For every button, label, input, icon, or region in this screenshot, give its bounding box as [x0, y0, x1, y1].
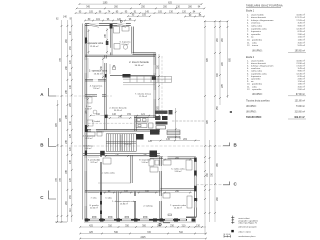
exterior wall right mid block: [153, 54, 155, 119]
svg-text:131.80 m²: 131.80 m²: [295, 99, 306, 102]
room label 4 kupaonica: [83, 136, 96, 141]
svg-text:499.20 m²: 499.20 m²: [294, 115, 305, 119]
corridor axis dashed: [88, 122, 134, 124]
exterior wall top: [85, 23, 131, 25]
pier stairs bottom-left: [100, 151, 105, 155]
room label 5 radna soba: [171, 168, 185, 174]
dim line x159: [158, 54, 160, 118]
svg-text:6.35 m²: 6.35 m²: [298, 30, 306, 33]
svg-text:12.65 m²: 12.65 m²: [90, 45, 99, 48]
section line B-B dashed: [56, 145, 223, 147]
window top wall 1: [89, 23, 99, 27]
svg-text:21.90 m²: 21.90 m²: [296, 62, 305, 65]
legend sveukupno: [246, 115, 305, 119]
svg-text:10.80 m²: 10.80 m²: [296, 13, 305, 16]
wall pier x123 terrace: [123, 74, 131, 78]
section line A-A dashed: [56, 95, 112, 97]
svg-text:1.80 m²: 1.80 m²: [298, 39, 306, 42]
svg-text:D: D: [120, 18, 123, 23]
svg-text:1.50 m²: 1.50 m²: [298, 80, 306, 83]
bathroom fixtures top-right room: [114, 27, 130, 50]
bottom rooms furniture marks: [103, 158, 192, 208]
wall pier stairs right: [136, 134, 144, 140]
dim line y140.5: [150, 140, 200, 142]
wall lower vertical x135: [133, 191, 135, 219]
wall lower vertical x160.5: [159, 157, 161, 220]
svg-text:radna soba: radna soba: [251, 25, 263, 28]
svg-text:6.30 m²: 6.30 m²: [86, 137, 93, 140]
corridor dim line: [90, 115, 150, 117]
svg-text:195.65 m²: 195.65 m²: [295, 50, 306, 53]
left chain ticks: [57, 25, 73, 217]
room label stepenice: [139, 159, 152, 165]
svg-text:UKUPNO:: UKUPNO:: [246, 111, 257, 113]
section marker B left: [40, 138, 56, 148]
wall mid vertical x131.5: [130, 155, 132, 183]
svg-text:UKUPNO:: UKUPNO:: [246, 106, 257, 108]
wall top-block mid vertical: [110, 25, 112, 56]
pier right wall top: [194, 198, 197, 201]
room label 6 kuhinja: [83, 146, 93, 151]
room label 1 dnevna: [112, 201, 136, 206]
staircase treads: [106, 134, 136, 152]
svg-text:7.90 m²: 7.90 m²: [93, 87, 100, 90]
right chain numbers: [207, 37, 231, 201]
interior dim ticks: [87, 29, 191, 193]
svg-text:SVEUKUPNO:: SVEUKUPNO:: [246, 116, 262, 119]
svg-text:UKUPNO:: UKUPNO:: [252, 94, 263, 96]
interior dim line room1: [88, 28, 192, 193]
legend block 1 rows: [247, 13, 305, 47]
svg-text:10.80 m²: 10.80 m²: [296, 59, 305, 62]
svg-text:12.: 12.: [247, 89, 250, 91]
wall lower vertical x117.5: [116, 191, 118, 219]
svg-text:soba: soba: [252, 42, 258, 44]
svg-text:4. radna soba: 4. radna soba: [101, 172, 115, 175]
pier left wall y129: [85, 129, 88, 132]
svg-text:dnevni boravak: dnevni boravak: [251, 16, 267, 19]
bottom-left end cluster: [55, 221, 67, 223]
room label 2b: [109, 107, 127, 113]
svg-text:1.80 m²: 1.80 m²: [298, 83, 306, 86]
bottom legend filled square: [231, 230, 234, 232]
wc cluster mid right: [149, 159, 159, 172]
scale mark cluster: [224, 235, 231, 238]
dashed overhang right: [161, 56, 163, 116]
svg-text:13.30 m²: 13.30 m²: [94, 73, 103, 76]
legend block 2 rows: [247, 59, 305, 91]
wall interior y116.5 partial: [134, 115, 156, 117]
svg-text:6.35 m²: 6.35 m²: [298, 75, 306, 78]
room label predsoblje: [88, 159, 101, 165]
svg-text:36.35 m²: 36.35 m²: [135, 64, 144, 67]
svg-text:15.20 m²: 15.20 m²: [139, 95, 147, 98]
piers on right wall x195.3: [194, 158, 197, 162]
wall pier x149 y151: [150, 151, 158, 158]
svg-text:12.35 m²: 12.35 m²: [296, 72, 305, 75]
right chain ticks: [204, 20, 228, 213]
wall lower band y190.5: [85, 190, 161, 192]
dim line y183: [98, 182, 131, 184]
bottom chain ticks: [79, 226, 206, 239]
svg-text:spremište: spremište: [251, 78, 261, 81]
wall step top right: [133, 52, 156, 54]
svg-text:20.50 m²: 20.50 m²: [90, 207, 98, 210]
svg-text:terasa: terasa: [252, 44, 259, 47]
wc fixtures: [87, 97, 97, 126]
svg-text:36.35 m²: 36.35 m²: [114, 109, 122, 112]
svg-text:11.: 11.: [247, 42, 250, 44]
svg-text:zidovi tipa Rigips 75: zidovi tipa Rigips 75: [238, 222, 257, 225]
svg-text:1195: 1195: [103, 2, 109, 4]
bottom legend text block 1: [237, 218, 258, 229]
svg-text:17.05 m²: 17.05 m²: [296, 65, 305, 68]
svg-text:4.60 m²: 4.60 m²: [85, 108, 92, 111]
svg-text:12.35 m²: 12.35 m²: [296, 27, 305, 30]
terrace band ledge: [123, 76, 172, 85]
svg-text:meduetazna ploca: meduetazna ploca: [238, 235, 256, 238]
svg-text:zajednička soba: zajednička soba: [251, 28, 267, 30]
pier top mid wall: [110, 24, 113, 29]
wall pier top-left room: [85, 38, 87, 44]
section marker A left: [40, 88, 56, 97]
svg-text:3.45 m²: 3.45 m²: [298, 67, 306, 70]
svg-text:5.40 m²: 5.40 m²: [142, 161, 149, 164]
legend header: [246, 3, 283, 8]
entry porch dark cluster: [150, 110, 173, 135]
bottom dimension chains: [80, 227, 206, 239]
top chain ticks: [75, 3, 205, 21]
section marker C right: [223, 182, 238, 187]
svg-text:2. kuhinja: 2. kuhinja: [143, 206, 153, 208]
svg-text:9.80 m²: 9.80 m²: [175, 170, 182, 173]
svg-text:9.80 m²: 9.80 m²: [298, 25, 306, 28]
svg-text:121.70 m²: 121.70 m²: [295, 16, 305, 19]
door gaps (white): [91, 48, 168, 201]
svg-text:kupaonica: kupaonica: [251, 31, 262, 33]
pier x105 y116 junction: [104, 115, 107, 118]
room label 1 spavaca soba: [85, 42, 104, 48]
svg-text:M 1:100: M 1:100: [224, 234, 231, 236]
svg-text:2.60 m²: 2.60 m²: [298, 88, 306, 91]
bathroom 4 fixtures: [87, 132, 102, 136]
wall bottom-right block top y157.5: [150, 156, 196, 158]
svg-text:7. izba: 7. izba: [91, 198, 98, 200]
svg-text:1. spavaća soba: 1. spavaća soba: [85, 42, 104, 45]
window right wall bottom 2: [194, 177, 196, 208]
svg-text:Etaža 1: Etaža 1: [246, 10, 255, 13]
window right wall mid 1: [154, 65, 156, 73]
entry steps: [167, 130, 180, 139]
kitchen fixtures cluster: [135, 118, 153, 129]
exterior wall bottom main y219.8: [85, 219, 188, 221]
svg-text:UKUPNO:: UKUPNO:: [252, 51, 263, 53]
section marker B right: [223, 143, 238, 148]
window left wall 2: [85, 99, 87, 111]
left dimension chains: [58, 20, 72, 222]
window left wall 1: [85, 60, 87, 73]
svg-text:17x17.6: 17x17.6: [124, 144, 131, 146]
wall interior y75.5: [110, 74, 155, 76]
bottom wall piers: [85, 218, 196, 221]
dashed line entry axis: [172, 120, 204, 122]
svg-text:dnevni boravak: dnevni boravak: [251, 62, 267, 65]
left chain numbers (rotated): [56, 30, 72, 211]
piers on x101 wall: [100, 192, 102, 195]
svg-text:spremište: spremište: [252, 88, 262, 91]
wall pier x105 at corridor: [105, 74, 107, 78]
room label 8 garaza: [89, 204, 99, 210]
window left wall 4: [85, 193, 87, 206]
small rect mark dnevni: [113, 67, 116, 70]
axis marker D top: [120, 18, 123, 23]
facade line left: [81, 24, 83, 220]
exterior wall bottom right step y217.2: [186, 216, 196, 218]
svg-text:zidovi i vijenci: zidovi i vijenci: [238, 231, 251, 233]
svg-text:jednostruki parapeti: jednostruki parapeti: [237, 226, 257, 229]
svg-text:5.05 m²: 5.05 m²: [298, 44, 306, 47]
room label 5 kupaonica: [120, 42, 132, 47]
radiator marks bottom wall: [93, 214, 172, 218]
legend ukupno 1: [252, 50, 305, 53]
svg-text:310.60 m²: 310.60 m²: [295, 110, 306, 113]
legend ukupno line: [246, 105, 305, 108]
pier left wall corridor: [85, 125, 87, 131]
wall under stairs y154.5: [83, 153, 160, 155]
wall lower vertical x101: [99, 155, 101, 220]
windows bottom wall: [90, 219, 186, 221]
wall interior vertical x105.5: [104, 56, 106, 131]
svg-text:12.: 12.: [247, 45, 250, 47]
svg-text:97.90 m²: 97.90 m²: [296, 93, 305, 96]
svg-text:3.00 m²: 3.00 m²: [298, 85, 306, 88]
svg-text:Tlocrtna bruto površina: Tlocrtna bruto površina: [246, 99, 270, 102]
svg-text:3. soba: 3. soba: [105, 198, 112, 200]
scattered wall dim numbers: [86, 33, 179, 192]
pier left wall kitchen: [85, 151, 87, 156]
wall interior y80: [85, 79, 106, 81]
svg-text:garderoba: garderoba: [252, 39, 263, 42]
legend ukupno line 2: [246, 110, 305, 113]
wall interior vertical x135.5: [134, 117, 136, 132]
svg-text:2425: 2425: [140, 237, 146, 239]
svg-text:2.80 m²: 2.80 m²: [298, 78, 306, 81]
room label 7 spavaca: [170, 205, 187, 210]
room label 3 spavaca soba: [89, 70, 108, 76]
wall top-block right vertical: [131, 27, 133, 54]
wall interior y55: [85, 54, 155, 56]
pier band wall: [152, 76, 156, 80]
svg-text:1.50 m²: 1.50 m²: [298, 36, 306, 39]
room label 2 kuhinja: [143, 206, 153, 208]
legend ukupno 2: [252, 93, 305, 96]
svg-text:ulazni hodnik: ulazni hodnik: [251, 14, 265, 16]
legend bruto line: [246, 99, 305, 102]
svg-text:2.80 m²: 2.80 m²: [298, 33, 306, 36]
window right wall mid 2: [154, 90, 156, 99]
top dimension chain 1: [76, 4, 205, 20]
wall interior y95.5: [85, 94, 106, 96]
window right wall bottom: [194, 162, 196, 171]
window top wall 2: [117, 23, 126, 27]
svg-text:10.: 10.: [247, 40, 250, 42]
svg-text:9.80 m²: 9.80 m²: [298, 70, 306, 73]
room label 7 izlazna terasa: [135, 93, 152, 99]
svg-text:2. dnevni boravak: 2. dnevni boravak: [129, 61, 149, 64]
section marker C left: [40, 191, 56, 201]
svg-text:14.60 m²: 14.60 m²: [174, 207, 182, 210]
left chain top end cluster: [56, 17, 73, 21]
room label 2 dnevni boravak: [129, 61, 149, 67]
svg-text:spremište: spremište: [251, 33, 261, 36]
facade line under bottom wall: [84, 221, 196, 223]
svg-text:Etaža 2: Etaža 2: [246, 56, 255, 59]
bottom legend level symbol: [231, 216, 234, 224]
porch dim line: [175, 108, 177, 140]
svg-text:73.90 m²: 73.90 m²: [296, 105, 305, 108]
svg-text:smočnica: smočnica: [251, 23, 261, 25]
svg-text:6.10 m²: 6.10 m²: [122, 43, 129, 46]
svg-text:radna soba: radna soba: [251, 70, 263, 73]
exterior wall right bottom block x194: [194, 158, 196, 218]
svg-text:kuhinja s blagovaonom: kuhinja s blagovaonom: [251, 20, 274, 22]
svg-text:9.60 m²: 9.60 m²: [85, 147, 92, 150]
svg-text:3. spavaća soba: 3. spavaća soba: [89, 70, 108, 73]
svg-text:3.00 m²: 3.00 m²: [298, 41, 306, 44]
section line C dashed right: [196, 184, 223, 186]
room label 5 wc: [85, 106, 92, 111]
svg-text:16.80 m²: 16.80 m²: [120, 203, 128, 206]
mid pier chimney: [106, 41, 109, 45]
room label 4 radna soba mid: [101, 172, 115, 175]
exterior wall left: [84, 24, 86, 220]
svg-text:garderoba: garderoba: [252, 83, 263, 86]
bottom chain numbers: [89, 225, 201, 239]
wall corridor y130: [85, 129, 160, 131]
top chain numbers: [79, 2, 202, 20]
axis marker D bottom: [159, 220, 171, 228]
svg-text:17.05 m²: 17.05 m²: [296, 19, 305, 22]
window left wall 3: [85, 158, 87, 171]
room label 6 kupaonica mid: [90, 86, 103, 91]
small mark right: [230, 111, 232, 113]
svg-text:8.25 m²: 8.25 m²: [91, 161, 98, 164]
svg-text:3.45 m²: 3.45 m²: [298, 22, 306, 25]
right dimension chains: [204, 21, 228, 235]
